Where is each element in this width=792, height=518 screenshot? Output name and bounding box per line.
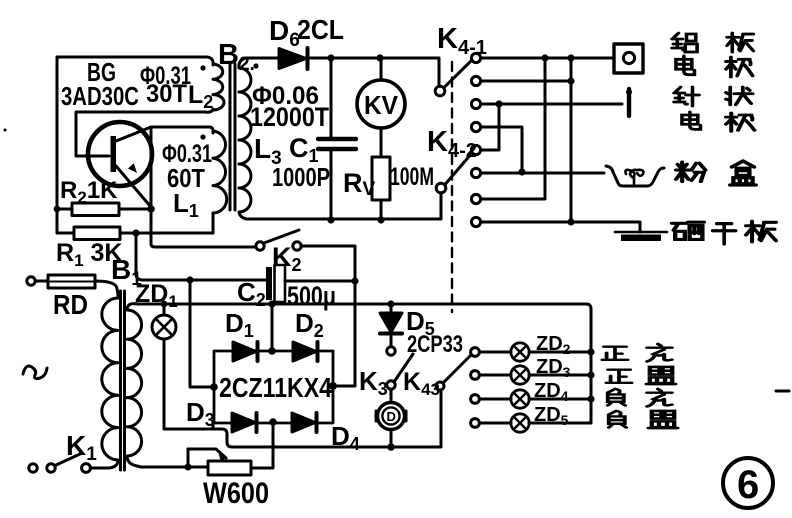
- wire contact5 jumper: [481, 104, 499, 150]
- svg-text:D2: D2: [295, 308, 324, 341]
- text positive charge: [602, 344, 672, 361]
- transformer B1 core: [121, 291, 125, 470]
- svg-text:L2: L2: [188, 81, 213, 112]
- wire DC rail y=304: [138, 300, 591, 423]
- meter KV: [357, 58, 405, 157]
- text powder box: [676, 161, 756, 185]
- svg-text:30T: 30T: [146, 80, 187, 108]
- svg-text:C2: C2: [237, 277, 266, 310]
- switch K4-1: [435, 61, 471, 96]
- wire top-left box left rail: [56, 57, 59, 233]
- inductor B1 secondary: [127, 304, 208, 471]
- svg-text:K2: K2: [272, 242, 302, 275]
- wire contact4 jumper: [481, 127, 526, 176]
- wire L2 bottom to base: [76, 109, 213, 156]
- wire bridge top-center to rail: [268, 304, 276, 355]
- resistor R1 3K: [57, 213, 213, 240]
- svg-text:D4: D4: [331, 421, 360, 454]
- diode D2: [293, 342, 318, 361]
- inductor L1: [200, 131, 226, 233]
- wire collector box / L1 top edge: [151, 127, 213, 133]
- diode D4: [292, 413, 317, 432]
- svg-text:KV: KV: [364, 90, 399, 120]
- svg-text:K4-1: K4-1: [437, 23, 487, 59]
- fuse RD: [27, 275, 118, 298]
- motor D: [376, 389, 406, 447]
- svg-text:ZD2: ZD2: [536, 333, 571, 357]
- lamp ZD5: [480, 414, 591, 432]
- svg-text:500μ: 500μ: [287, 281, 336, 311]
- wire contact2: [481, 77, 575, 84]
- svg-text:W600: W600: [203, 477, 269, 510]
- wire bottom motor rail: [213, 390, 441, 451]
- svg-text:K43: K43: [403, 368, 440, 399]
- wire contact6 to powder box: [481, 172, 604, 175]
- switch K3: [387, 354, 413, 389]
- svg-text:D1: D1: [225, 308, 254, 341]
- switch K1: [29, 454, 91, 472]
- bridge rectifier box 2CZ11KX4: [214, 351, 333, 423]
- svg-text:1000P: 1000P: [272, 162, 330, 192]
- wire bridge bottom-center to W600: [251, 418, 277, 468]
- text selenium dry plate: [672, 221, 776, 244]
- wire emitter rail x=151: [151, 127, 256, 247]
- svg-text:K3: K3: [359, 366, 388, 399]
- diode D6 2CL: [279, 48, 308, 69]
- capacitor C1 1000P: [318, 58, 356, 224]
- lamp ZD1: [152, 304, 213, 429]
- text negative indicate: [609, 411, 678, 428]
- needle electrode symbol: [626, 89, 632, 116]
- text aluminum plate electrode: [672, 33, 753, 77]
- svg-text:R21K: R21K: [60, 177, 118, 207]
- svg-text:2CP33: 2CP33: [407, 331, 463, 358]
- resistor R2 1K: [54, 203, 155, 216]
- wire bridge right vertex: [329, 281, 355, 390]
- lamp contacts K4-3 row: [471, 348, 480, 428]
- lamp ZD3: [480, 366, 595, 384]
- svg-text:ZD5: ZD5: [534, 404, 569, 428]
- text needle electrode: [674, 87, 755, 131]
- wire contact1 to aluminum electrode: [481, 54, 613, 61]
- wire contact8 to selenium plate: [481, 58, 640, 232]
- wire contact7 jumper: [481, 58, 545, 199]
- svg-text:3AD30C: 3AD30C: [61, 81, 139, 111]
- contact row K4 column: [471, 53, 480, 226]
- svg-text:B2.: B2.: [218, 39, 255, 75]
- inductor B1 primary: [91, 298, 118, 468]
- svg-text:D6: D6: [269, 15, 300, 51]
- wire R1 node down to C2 rail: [136, 233, 266, 284]
- AC source squiggle: [23, 366, 47, 379]
- lamp ZD2: [480, 343, 595, 361]
- svg-text:12000T: 12000T: [250, 102, 329, 132]
- wire contact3 to needle electrode: [481, 100, 622, 107]
- stray speck left margin: [4, 129, 7, 132]
- selenium plate symbol: [615, 232, 667, 241]
- diode D1: [233, 342, 258, 361]
- svg-text:2CL: 2CL: [297, 14, 344, 45]
- svg-text:D: D: [387, 409, 396, 424]
- wire top-left box top edge: [57, 57, 213, 65]
- transistor Q1 BG 3AD30C: [88, 122, 152, 207]
- stray mark right margin: [776, 390, 789, 393]
- svg-text:ZD4: ZD4: [534, 380, 569, 404]
- text positive indicate: [606, 367, 675, 384]
- svg-text:D3: D3: [186, 397, 215, 430]
- wire HV top rail: [247, 54, 439, 86]
- inductor L3: [239, 58, 259, 219]
- wire bridge left vertex: [190, 280, 218, 391]
- transformer B2 core: [230, 64, 235, 210]
- text negative charge: [608, 389, 672, 407]
- aluminum plate electrode symbol: [614, 44, 643, 73]
- lamp ZD4: [480, 390, 595, 408]
- switch K4-3: [436, 355, 471, 390]
- wire B2 bottom rail: [247, 193, 441, 219]
- powder box symbol: [606, 166, 664, 186]
- dashed section line K4: [451, 62, 453, 312]
- inductor L2: [200, 64, 224, 110]
- svg-text:K1: K1: [66, 430, 97, 465]
- svg-text:6: 6: [737, 463, 759, 507]
- diode D3: [232, 413, 257, 432]
- figure number circle 6: [723, 458, 773, 508]
- svg-text:RD: RD: [53, 289, 88, 320]
- svg-text:ZD1: ZD1: [135, 280, 178, 311]
- diode D5 2CP33: [380, 304, 402, 355]
- switch K4-2: [436, 153, 472, 193]
- svg-text:100M: 100M: [390, 163, 434, 191]
- potentiometer W600: [188, 449, 251, 475]
- svg-text:2CZ11KX4: 2CZ11KX4: [219, 372, 332, 403]
- capacitor C2 500u: [266, 265, 359, 302]
- svg-text:ZD3: ZD3: [536, 356, 571, 380]
- switch K2: [256, 230, 355, 281]
- resistor Rv 100M: [372, 157, 390, 224]
